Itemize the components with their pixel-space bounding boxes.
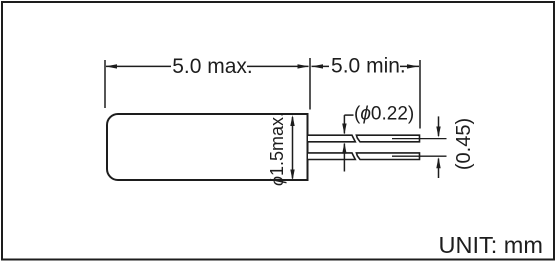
upper vertical line: [343, 115, 345, 133]
svg-text:ϕ1.5max.: ϕ1.5max.: [267, 112, 287, 186]
down arrow to top lead centerline: [436, 127, 440, 138]
lead bottom centerline / extension for (0.45): [392, 155, 447, 157]
svg-text:(0.45): (0.45): [453, 118, 475, 170]
dimension line left segment: [106, 65, 171, 67]
dimension (phi0.22) leader and arrows: [342, 115, 353, 171]
shared center extension line: [309, 58, 311, 110]
left arrow: [312, 64, 324, 68]
dimension line left segment: [312, 65, 330, 67]
dimension line right segment: [400, 65, 419, 67]
lead top: left segment with break: [308, 135, 355, 142]
dimension phi1.5max: vertical arrow inside can: [290, 115, 294, 181]
left arrow: [106, 64, 118, 68]
lead top: right segment: [356, 135, 419, 142]
lead bottom: right segment: [356, 153, 419, 160]
lead top centerline / extension for (0.45): [392, 138, 447, 140]
down arrow to lead top edge: [342, 124, 346, 135]
cylinder body (crystal can): [107, 114, 308, 180]
up arrow to lead bottom edge: [342, 143, 346, 154]
up arrow to bottom lead centerline: [436, 157, 440, 168]
upper vertical line: [438, 116, 440, 136]
left extension line: [104, 60, 106, 108]
svg-text:5.0 max.: 5.0 max.: [172, 55, 253, 78]
lower vertical line: [438, 159, 440, 179]
dimension line right segment: [247, 65, 309, 67]
dimension 5.0 min.: [312, 60, 421, 129]
svg-text:UNIT: mm: UNIT: mm: [439, 232, 543, 258]
lead bottom: left segment with break: [308, 153, 355, 160]
right extension line: [419, 60, 421, 129]
dimension 5.0 max.: [105, 58, 310, 110]
leader horizontal tick: [344, 114, 353, 116]
svg-text:(ϕ0.22): (ϕ0.22): [354, 104, 414, 125]
dimension (0.45): [436, 116, 440, 178]
lower vertical line: [343, 144, 345, 172]
right arrow: [298, 64, 310, 68]
right arrow: [407, 64, 419, 68]
svg-text:5.0 min.: 5.0 min.: [331, 55, 406, 78]
